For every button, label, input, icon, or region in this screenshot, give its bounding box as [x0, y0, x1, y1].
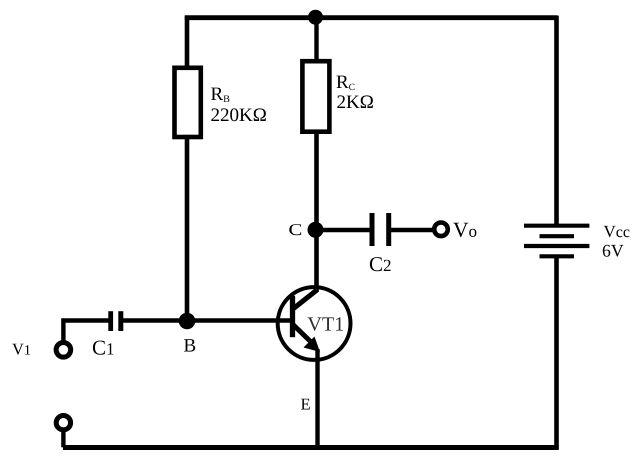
- wire: C1 to transistor base: [121, 318, 291, 323]
- transistor VT1 emitter arrowhead: [304, 337, 321, 353]
- capacitor C2 left plate: [370, 213, 375, 246]
- label C2: [370, 257, 391, 271]
- transistor VT1 base bar: [290, 296, 295, 337]
- capacitor C2 right plate: [386, 213, 391, 246]
- label VT1: [308, 317, 344, 331]
- wire: top supply rail: [185, 15, 557, 20]
- label 6V: [603, 245, 624, 257]
- battery Vcc plate 4 short: [540, 254, 575, 258]
- resistor RC: [302, 61, 329, 132]
- label node C: [289, 224, 301, 235]
- wire: RC branch from top rail: [314, 16, 318, 62]
- label RB designator: [211, 88, 229, 102]
- label RC value 2K-ohm: [337, 95, 373, 108]
- battery Vcc plate 1 long: [524, 224, 589, 228]
- wire: RC to node C: [314, 131, 319, 230]
- terminal: V1 input open circle: [56, 343, 71, 358]
- transistor VT1 emitter stroke: [294, 325, 312, 342]
- capacitor C1 right plate: [118, 311, 123, 331]
- wire: RB to node B: [185, 137, 190, 321]
- battery Vcc plate 3 long: [524, 244, 589, 248]
- node C junction dot: [308, 222, 324, 238]
- wire: right rail from top to battery: [554, 16, 559, 225]
- label V1: [12, 344, 30, 355]
- label RB value 220K-ohm: [211, 108, 266, 121]
- label node B: [184, 339, 195, 352]
- wire: node C to collector: [314, 230, 319, 292]
- label Vcc: [604, 226, 630, 237]
- wire: bottom return rail: [63, 445, 559, 450]
- wire: battery to bottom rail: [554, 257, 559, 450]
- wire: RB branch from top rail: [185, 16, 190, 69]
- label Vo: [453, 223, 476, 237]
- transistor VT1 collector stroke: [294, 290, 318, 309]
- transistor VT1 body circle: [278, 287, 351, 360]
- battery Vcc plate 2 short: [540, 234, 575, 238]
- capacitor C1 left plate: [108, 311, 113, 331]
- label emitter E: [301, 399, 310, 410]
- label RC designator: [337, 76, 355, 91]
- wire: node C to C2: [317, 228, 371, 233]
- wire: C2 to Vo terminal: [389, 228, 433, 233]
- wire: V1 terminal riser to base line: [63, 321, 109, 344]
- terminal: input return open circle: [56, 416, 70, 430]
- wire: return terminal riser: [61, 429, 65, 447]
- node B junction dot: [179, 313, 196, 330]
- label C1: [93, 341, 114, 355]
- wire: emitter to bottom rail: [315, 349, 319, 447]
- node: top junction dot: [308, 10, 323, 25]
- terminal: Vo output open circle: [434, 223, 448, 237]
- resistor RB: [175, 68, 201, 137]
